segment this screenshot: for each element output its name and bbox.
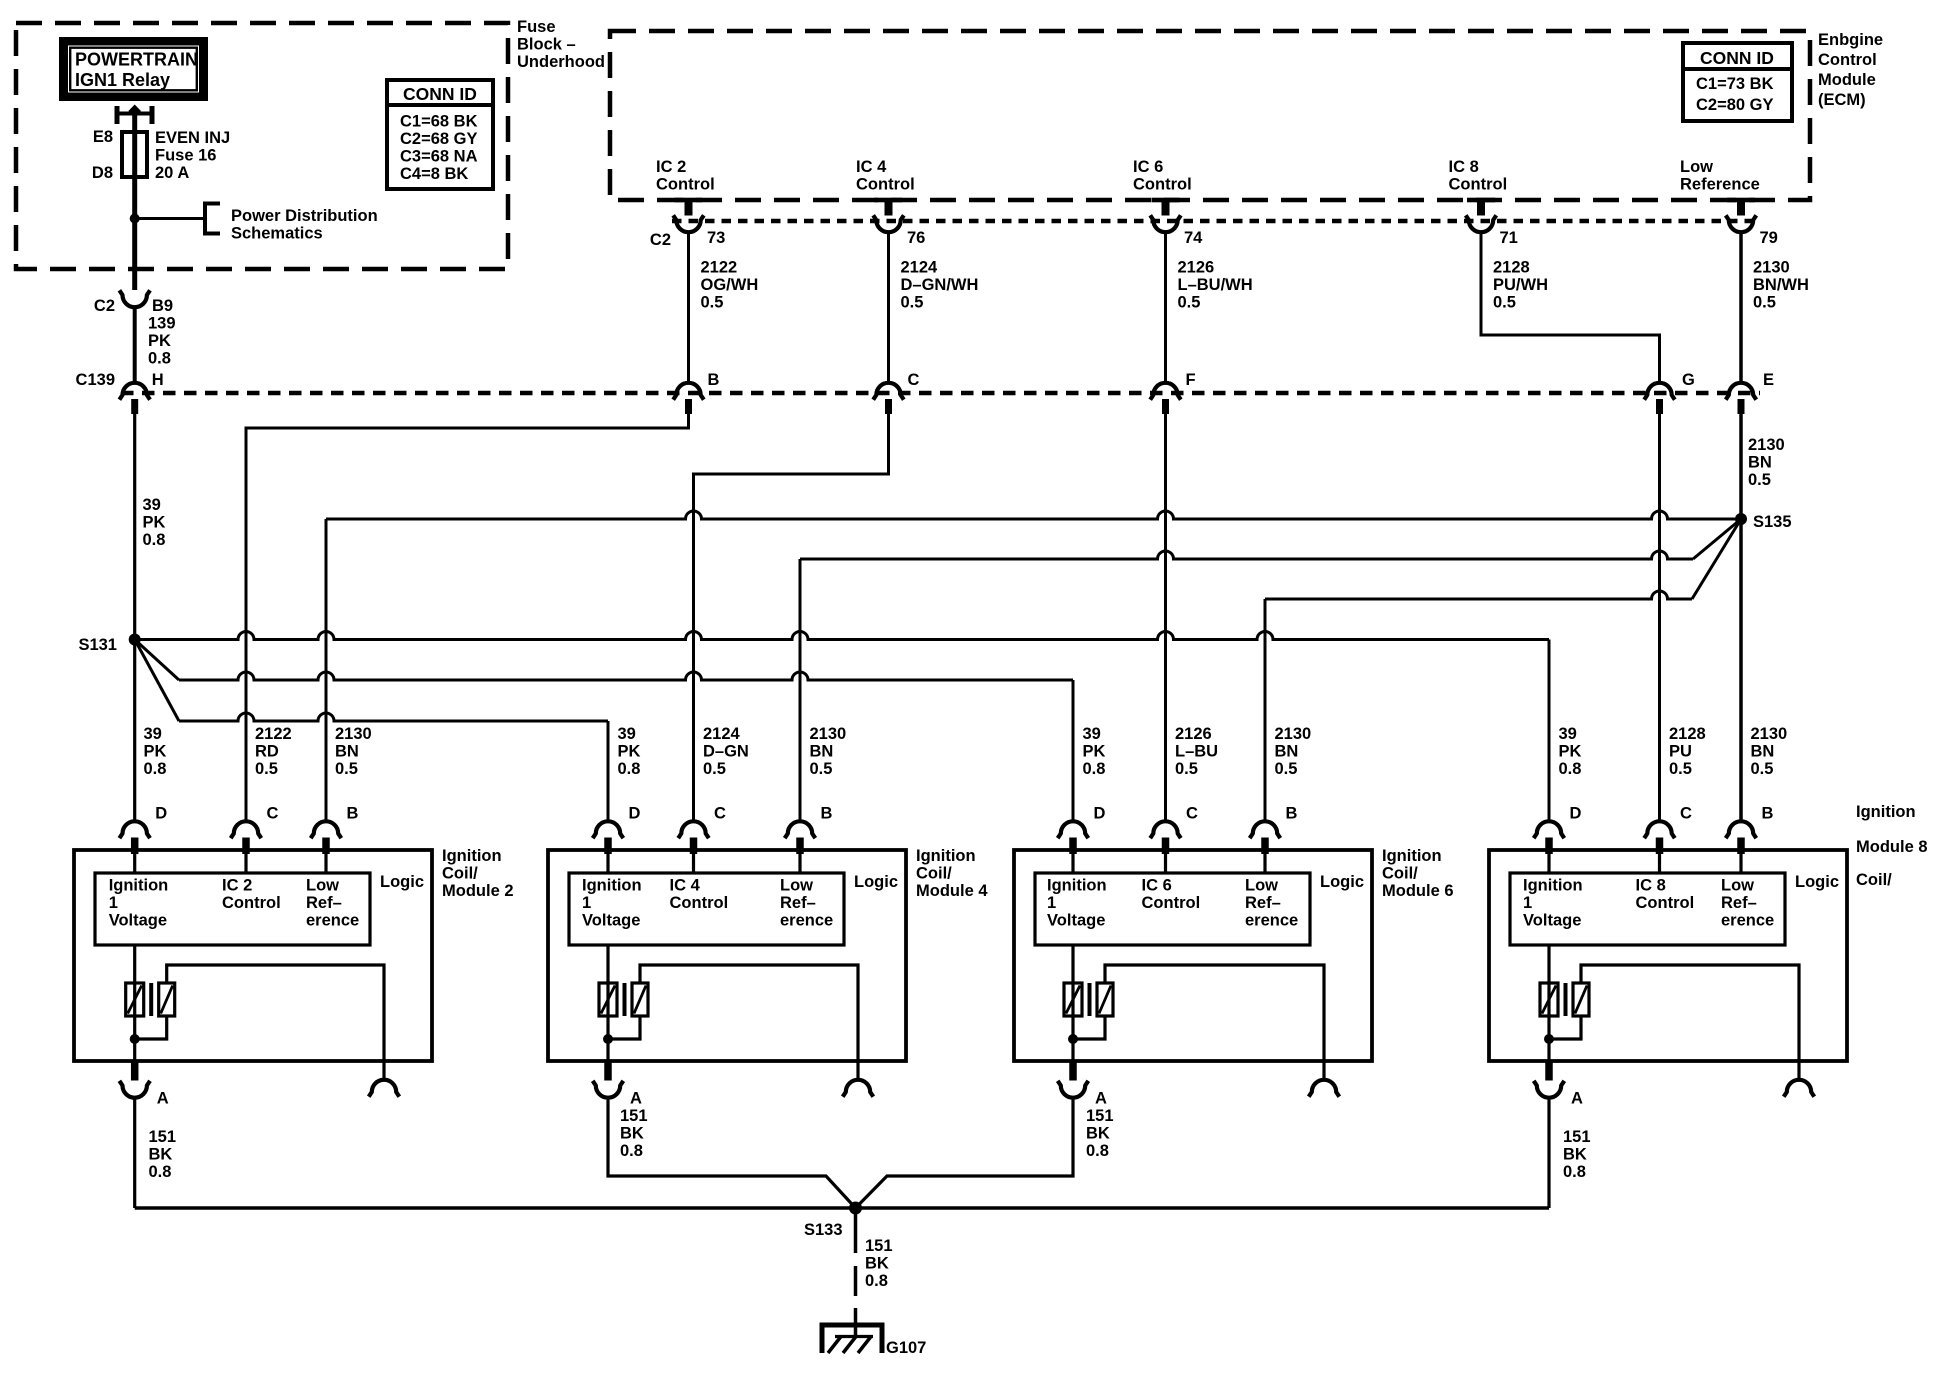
svg-text:B: B bbox=[1762, 805, 1774, 823]
label: wire 2130 BN/WH 0.5 bbox=[1753, 259, 1809, 312]
label: wire 151 BK 0.8 (module 8) bbox=[1563, 1128, 1591, 1181]
svg-text:Logic: Logic bbox=[380, 873, 424, 891]
label: wire A 151 BK 0.8 (module 2) bbox=[149, 1128, 177, 1181]
label: Logic (module 6) bbox=[1320, 873, 1364, 891]
svg-text:151: 151 bbox=[1563, 1128, 1591, 1146]
label: Ignition Coil/ Module 2 bbox=[442, 847, 514, 900]
svg-text:2126: 2126 bbox=[1178, 259, 1215, 277]
svg-text:2128: 2128 bbox=[1669, 725, 1706, 743]
label: Power Distribution Schematics bbox=[231, 207, 378, 243]
svg-text:Schematics: Schematics bbox=[231, 225, 323, 243]
coil primary winding (module 2) bbox=[126, 945, 144, 1061]
wire 151 BK: module 2 pin A to S133 bus bbox=[133, 1099, 136, 1209]
svg-text:E8: E8 bbox=[93, 128, 113, 146]
svg-text:Module 2: Module 2 bbox=[442, 882, 514, 900]
ground G107 symbol bbox=[822, 1325, 882, 1353]
svg-text:0.5: 0.5 bbox=[1275, 760, 1298, 778]
connector C139 dashed line bbox=[121, 391, 1760, 396]
label: pin letter A (module 4) bbox=[630, 1090, 642, 1108]
svg-text:IC 2: IC 2 bbox=[222, 877, 252, 895]
svg-text:PK: PK bbox=[144, 743, 167, 761]
svg-text:Low: Low bbox=[306, 877, 339, 895]
svg-text:Ref–: Ref– bbox=[780, 894, 816, 912]
svg-text:Logic: Logic bbox=[1320, 873, 1364, 891]
wire 151 BK ground bus bbox=[135, 1206, 1549, 1210]
svg-text:0.8: 0.8 bbox=[149, 1163, 172, 1181]
label: S131 bbox=[78, 636, 117, 654]
label: wire 2124 D–GN/WH 0.5 bbox=[901, 259, 979, 312]
svg-text:0.8: 0.8 bbox=[1083, 760, 1106, 778]
ECM pin 76 connector bbox=[873, 198, 904, 233]
bracket: power distribution reference bbox=[205, 204, 220, 234]
wire 2130 BN: coil 4 pin B to splice S135 bbox=[800, 519, 1741, 821]
svg-text:BN: BN bbox=[1751, 743, 1775, 761]
wire 2124 from ECM pin 76 to C139 C bbox=[887, 232, 890, 382]
svg-text:0.8: 0.8 bbox=[1559, 760, 1582, 778]
label: C139 pin letter C bbox=[908, 371, 920, 389]
svg-text:Low: Low bbox=[780, 877, 813, 895]
label: pin letter A (module 8) bbox=[1571, 1090, 1583, 1108]
label: Ignition Module 8 Coil/ bbox=[1856, 803, 1928, 889]
svg-text:2126: 2126 bbox=[1175, 725, 1212, 743]
label: wire 2128 PU/WH 0.5 bbox=[1493, 259, 1548, 312]
svg-text:Voltage: Voltage bbox=[1523, 912, 1581, 930]
svg-text:IC 8: IC 8 bbox=[1449, 158, 1479, 176]
svg-text:erence: erence bbox=[780, 912, 833, 930]
svg-text:EVEN INJ: EVEN INJ bbox=[155, 129, 230, 147]
svg-text:0.5: 0.5 bbox=[901, 294, 924, 312]
svg-text:Control: Control bbox=[670, 894, 729, 912]
label: wire 2128 PU 0.5 bbox=[1669, 725, 1706, 778]
svg-text:D8: D8 bbox=[92, 164, 113, 182]
svg-text:Voltage: Voltage bbox=[1047, 912, 1105, 930]
svg-text:Module: Module bbox=[1818, 71, 1876, 89]
svg-text:39: 39 bbox=[143, 496, 161, 514]
C139 pin G connector bbox=[1644, 383, 1675, 414]
wire 39 PK: S131 down to coil 2 pin D bbox=[133, 640, 136, 821]
splice S133 bbox=[849, 1202, 862, 1215]
svg-text:2130: 2130 bbox=[1748, 436, 1785, 454]
ECM connector C2 dotted line bbox=[672, 219, 1757, 224]
svg-text:S131: S131 bbox=[78, 636, 117, 654]
wire 151 BK: module 4 pin A to S133 bbox=[608, 1099, 856, 1209]
svg-text:POWERTRAIN: POWERTRAIN bbox=[75, 50, 198, 70]
wire 2130 BN: coil 6 pin B to splice S135 bbox=[1265, 519, 1741, 821]
svg-text:1: 1 bbox=[1523, 894, 1532, 912]
ignition coil/module 4 logic box bbox=[569, 873, 844, 945]
ignition coil/module 4 outer box bbox=[548, 850, 906, 1061]
label: pin number 71 bbox=[1500, 229, 1518, 247]
svg-text:B9: B9 bbox=[152, 297, 173, 315]
C139 pin C connector bbox=[873, 383, 904, 414]
svg-text:0.8: 0.8 bbox=[148, 350, 171, 368]
svg-text:S135: S135 bbox=[1753, 513, 1792, 531]
label: wire 39 PK 0.8 bbox=[1559, 725, 1582, 778]
label: G107 bbox=[886, 1339, 926, 1357]
label: C139 pin letter F bbox=[1186, 371, 1196, 389]
wire 151 BK: module 6 pin A to S133 bbox=[856, 1099, 1074, 1209]
svg-text:G: G bbox=[1682, 371, 1695, 389]
svg-text:Fuse 16: Fuse 16 bbox=[155, 147, 216, 165]
svg-text:Power Distribution: Power Distribution bbox=[231, 207, 378, 225]
fuse block underhood dashed box bbox=[16, 23, 508, 269]
ignition coil/module 2 logic box bbox=[95, 873, 370, 945]
svg-text:IC 4: IC 4 bbox=[670, 877, 701, 895]
svg-text:C: C bbox=[267, 805, 279, 823]
svg-text:0.5: 0.5 bbox=[703, 760, 726, 778]
svg-text:2130: 2130 bbox=[1753, 259, 1790, 277]
coil core (module 6) bbox=[1088, 983, 1092, 1016]
svg-text:C: C bbox=[908, 371, 920, 389]
svg-text:L–BU: L–BU bbox=[1175, 743, 1218, 761]
label: pin letter A (module 6) bbox=[1095, 1090, 1107, 1108]
label: wire 2124 D–GN 0.5 bbox=[703, 725, 749, 778]
ignition coil/module 8 outer box bbox=[1489, 850, 1847, 1061]
svg-text:Control: Control bbox=[856, 176, 915, 194]
label: wire 2130 BN 0.5 bbox=[335, 725, 372, 778]
svg-text:Logic: Logic bbox=[854, 873, 898, 891]
wire 139 PK 0.8 from C2 to C139 pin H bbox=[133, 307, 137, 383]
svg-text:0.5: 0.5 bbox=[701, 294, 724, 312]
label: Logic (module 8) bbox=[1795, 873, 1839, 891]
svg-text:RD: RD bbox=[255, 743, 279, 761]
label: Logic (module 4) bbox=[854, 873, 898, 891]
C139 pin E connector bbox=[1726, 383, 1757, 414]
ECM pin 71 connector bbox=[1466, 198, 1497, 232]
svg-text:D–GN/WH: D–GN/WH bbox=[901, 276, 979, 294]
C139 pin B connector bbox=[673, 383, 704, 414]
ECM pin 73 connector bbox=[673, 198, 704, 233]
svg-text:BN: BN bbox=[1748, 454, 1772, 472]
svg-text:151: 151 bbox=[149, 1128, 177, 1146]
svg-text:0.5: 0.5 bbox=[1751, 760, 1774, 778]
fuse block CONN ID table bbox=[387, 80, 493, 189]
svg-text:BK: BK bbox=[865, 1255, 889, 1273]
wire from C139 B jog to ignition coil 2 pin C bbox=[246, 414, 689, 821]
svg-text:2124: 2124 bbox=[703, 725, 741, 743]
module 2 pin A connector bbox=[119, 1061, 150, 1098]
svg-text:PK: PK bbox=[618, 743, 641, 761]
svg-text:73: 73 bbox=[707, 229, 725, 247]
ignition coil/module 2 outer box bbox=[74, 850, 432, 1061]
ignition coil/module 6 pins D C B connectors bbox=[1058, 805, 1298, 874]
label: Fuse Block Underhood bbox=[517, 18, 605, 71]
svg-text:Ignition: Ignition bbox=[1047, 877, 1107, 895]
wire 2126 from ECM pin 74 to C139 F bbox=[1164, 232, 1167, 382]
label: wire 2130 BN 0.5 bbox=[1751, 725, 1788, 778]
svg-text:B: B bbox=[347, 805, 359, 823]
ECM dashed box bbox=[610, 31, 1810, 200]
svg-text:2124: 2124 bbox=[901, 259, 939, 277]
label: pin number 73 bbox=[707, 229, 725, 247]
svg-text:(ECM): (ECM) bbox=[1818, 91, 1866, 109]
label: pin number 74 bbox=[1184, 229, 1203, 247]
svg-text:39: 39 bbox=[618, 725, 636, 743]
svg-text:151: 151 bbox=[865, 1237, 893, 1255]
node: coil common junction (module 6) bbox=[1068, 1034, 1078, 1044]
connector C2 inline (cup) bbox=[119, 290, 150, 307]
svg-text:2128: 2128 bbox=[1493, 259, 1530, 277]
svg-text:PU/WH: PU/WH bbox=[1493, 276, 1548, 294]
svg-text:Ignition: Ignition bbox=[109, 877, 169, 895]
svg-text:A: A bbox=[630, 1090, 642, 1108]
svg-text:OG/WH: OG/WH bbox=[701, 276, 759, 294]
relay bottom pin terminal symbol bbox=[117, 105, 152, 125]
svg-text:Low: Low bbox=[1245, 877, 1278, 895]
svg-text:D: D bbox=[1094, 805, 1106, 823]
svg-text:IC 2: IC 2 bbox=[656, 158, 686, 176]
label: pin letter A (module 2) bbox=[157, 1090, 169, 1108]
svg-text:BN/WH: BN/WH bbox=[1753, 276, 1809, 294]
coil primary winding (module 6) bbox=[1064, 945, 1082, 1061]
label: wire 39 PK 0.8 bbox=[1083, 725, 1106, 778]
svg-text:PK: PK bbox=[143, 514, 166, 532]
svg-text:1: 1 bbox=[1047, 894, 1056, 912]
coil secondary winding (module 2) bbox=[135, 965, 384, 1061]
label: wire 2130 BN 0.5 (above S135) bbox=[1748, 436, 1785, 489]
svg-text:139: 139 bbox=[148, 315, 176, 333]
svg-text:0.5: 0.5 bbox=[1493, 294, 1516, 312]
svg-text:F: F bbox=[1186, 371, 1196, 389]
label: C139 pin letter G bbox=[1682, 371, 1695, 389]
label: wire 2130 BN 0.5 bbox=[1275, 725, 1312, 778]
svg-text:Ref–: Ref– bbox=[1721, 894, 1757, 912]
svg-text:BK: BK bbox=[149, 1146, 173, 1164]
svg-text:E: E bbox=[1763, 371, 1774, 389]
coil primary winding (module 8) bbox=[1540, 945, 1558, 1061]
wire from C139 F down to ignition coil 6 pin C bbox=[1164, 414, 1167, 821]
wire: fuse output down to connector C2 bbox=[132, 219, 137, 291]
svg-text:PK: PK bbox=[1083, 743, 1106, 761]
svg-text:2130: 2130 bbox=[810, 725, 847, 743]
svg-text:Control: Control bbox=[222, 894, 281, 912]
svg-text:0.5: 0.5 bbox=[1175, 760, 1198, 778]
svg-text:C2=68 GY: C2=68 GY bbox=[400, 130, 478, 148]
svg-text:Module 6: Module 6 bbox=[1382, 882, 1454, 900]
label: C139 bbox=[76, 371, 115, 389]
svg-text:Underhood: Underhood bbox=[517, 53, 605, 71]
label: wire 2126 L–BU 0.5 bbox=[1175, 725, 1218, 778]
svg-text:PU: PU bbox=[1669, 743, 1692, 761]
svg-text:74: 74 bbox=[1184, 229, 1203, 247]
svg-text:2130: 2130 bbox=[1751, 725, 1788, 743]
label: pin number 76 bbox=[907, 229, 925, 247]
svg-text:0.8: 0.8 bbox=[1086, 1142, 1109, 1160]
label: wire 2130 BN 0.5 bbox=[810, 725, 847, 778]
svg-text:CONN ID: CONN ID bbox=[403, 84, 477, 104]
svg-text:B: B bbox=[821, 805, 833, 823]
svg-text:A: A bbox=[1095, 1090, 1107, 1108]
svg-text:Coil/: Coil/ bbox=[442, 865, 478, 883]
svg-text:2122: 2122 bbox=[255, 725, 292, 743]
svg-text:Coil/: Coil/ bbox=[1856, 871, 1892, 889]
wire 2130 BN: S135 down to coil 8 pin B bbox=[1739, 519, 1743, 821]
svg-text:0.8: 0.8 bbox=[144, 760, 167, 778]
svg-text:Enbgine: Enbgine bbox=[1818, 31, 1883, 49]
C139 pin H connector bbox=[119, 383, 150, 414]
svg-text:A: A bbox=[1571, 1090, 1583, 1108]
ECM pin 79 connector bbox=[1726, 198, 1757, 232]
wire 39 PK 0.8 from C139 H down to S131 bbox=[133, 414, 136, 640]
coil primary winding (module 4) bbox=[599, 945, 617, 1061]
svg-text:IC 6: IC 6 bbox=[1133, 158, 1163, 176]
wire 39 PK: S131 rail to coil 8 pin D bbox=[135, 632, 1549, 821]
label: wire 2122 RD 0.5 bbox=[255, 725, 292, 778]
svg-text:Ignition: Ignition bbox=[442, 847, 502, 865]
svg-text:151: 151 bbox=[620, 1107, 648, 1125]
svg-text:Coil/: Coil/ bbox=[916, 865, 952, 883]
svg-text:C2: C2 bbox=[94, 297, 115, 315]
ECM pin 74 connector bbox=[1150, 198, 1181, 232]
wire 151 BK 0.8 from S133 to ground (broken) bbox=[854, 1208, 858, 1336]
label: wire 39 PK 0.8 (upper left) bbox=[143, 496, 166, 549]
svg-text:C139: C139 bbox=[76, 371, 115, 389]
svg-text:BN: BN bbox=[1275, 743, 1299, 761]
splice S131 bbox=[129, 634, 141, 646]
svg-text:D: D bbox=[155, 805, 167, 823]
label: wire 2122 OG/WH 0.5 bbox=[701, 259, 759, 312]
svg-text:IC 4: IC 4 bbox=[856, 158, 887, 176]
label: wire 39 PK 0.8 bbox=[618, 725, 641, 778]
svg-text:BK: BK bbox=[620, 1125, 644, 1143]
svg-text:Control: Control bbox=[1818, 51, 1877, 69]
svg-text:C3=68 NA: C3=68 NA bbox=[400, 148, 478, 166]
svg-text:0.8: 0.8 bbox=[1563, 1163, 1586, 1181]
svg-text:L–BU/WH: L–BU/WH bbox=[1178, 276, 1253, 294]
svg-text:2130: 2130 bbox=[1275, 725, 1312, 743]
svg-text:BK: BK bbox=[1086, 1125, 1110, 1143]
node: coil common junction (module 8) bbox=[1544, 1034, 1554, 1044]
svg-text:79: 79 bbox=[1760, 229, 1778, 247]
svg-text:Voltage: Voltage bbox=[582, 912, 640, 930]
svg-text:Voltage: Voltage bbox=[109, 912, 167, 930]
svg-text:Low: Low bbox=[1680, 158, 1713, 176]
svg-text:2130: 2130 bbox=[335, 725, 372, 743]
svg-text:Block –: Block – bbox=[517, 36, 576, 54]
svg-text:D: D bbox=[629, 805, 641, 823]
ignition coil/module 4 pins D C B connectors bbox=[593, 805, 833, 874]
label: wire A 151 BK 0.8 (module 6) bbox=[1086, 1107, 1114, 1160]
svg-text:C: C bbox=[714, 805, 726, 823]
module 4 low reference output connector (unterminated) bbox=[843, 1061, 874, 1097]
svg-text:Control: Control bbox=[1636, 894, 1695, 912]
svg-text:0.8: 0.8 bbox=[618, 760, 641, 778]
label: C2 B9 and wire 139 PK 0.8 bbox=[94, 297, 176, 368]
label: Ignition Coil/ Module 4 bbox=[916, 847, 988, 900]
svg-text:0.5: 0.5 bbox=[1753, 294, 1776, 312]
svg-text:Ignition: Ignition bbox=[916, 847, 976, 865]
svg-text:Coil/: Coil/ bbox=[1382, 865, 1418, 883]
svg-text:C: C bbox=[1186, 805, 1198, 823]
module 4 pin A connector bbox=[593, 1061, 624, 1098]
ECM CONN ID table bbox=[1683, 43, 1792, 121]
label: C139 pin letter H bbox=[152, 371, 164, 389]
svg-text:Low: Low bbox=[1721, 877, 1754, 895]
svg-text:39: 39 bbox=[144, 725, 162, 743]
svg-text:151: 151 bbox=[1086, 1107, 1114, 1125]
label: fuse terminals E8 D8 bbox=[92, 128, 113, 182]
label: wire 2126 L–BU/WH 0.5 bbox=[1178, 259, 1253, 312]
svg-text:Ignition: Ignition bbox=[1382, 847, 1442, 865]
svg-text:IC 8: IC 8 bbox=[1636, 877, 1666, 895]
svg-text:BN: BN bbox=[810, 743, 834, 761]
wire 2130 from ECM pin 79 to C139 E bbox=[1739, 232, 1743, 382]
svg-text:C1=73 BK: C1=73 BK bbox=[1696, 75, 1774, 93]
label: wire A 151 BK 0.8 (module 4) bbox=[620, 1107, 648, 1160]
svg-text:Control: Control bbox=[1142, 894, 1201, 912]
svg-text:Logic: Logic bbox=[1795, 873, 1839, 891]
svg-text:Ref–: Ref– bbox=[1245, 894, 1281, 912]
label: S135 bbox=[1753, 513, 1792, 531]
svg-text:BK: BK bbox=[1563, 1146, 1587, 1164]
wire from C139 C jog to ignition coil 4 pin C bbox=[694, 414, 889, 821]
svg-text:Ignition: Ignition bbox=[582, 877, 642, 895]
svg-text:C1=68 BK: C1=68 BK bbox=[400, 113, 478, 131]
ECM internal pin function labels bbox=[656, 158, 1760, 194]
svg-text:CONN ID: CONN ID bbox=[1700, 48, 1774, 68]
svg-text:S133: S133 bbox=[804, 1221, 843, 1239]
svg-text:G107: G107 bbox=[886, 1339, 926, 1357]
wire 39 PK: S131 rail to coil 6 pin D bbox=[135, 640, 1073, 821]
label: C139 pin letter E bbox=[1763, 371, 1774, 389]
label: C139 pin letter B bbox=[708, 371, 720, 389]
svg-text:PK: PK bbox=[148, 332, 171, 350]
svg-text:0.5: 0.5 bbox=[1178, 294, 1201, 312]
label: wire 151 BK 0.8 (to ground) bbox=[865, 1237, 893, 1290]
svg-text:0.8: 0.8 bbox=[865, 1272, 888, 1290]
svg-text:1: 1 bbox=[582, 894, 591, 912]
svg-text:PK: PK bbox=[1559, 743, 1582, 761]
svg-text:0.5: 0.5 bbox=[810, 760, 833, 778]
label: connector C2 of ECM bbox=[650, 231, 671, 249]
svg-text:Ref–: Ref– bbox=[306, 894, 342, 912]
svg-text:IGN1 Relay: IGN1 Relay bbox=[75, 70, 170, 90]
svg-text:0.8: 0.8 bbox=[620, 1142, 643, 1160]
svg-text:Module 4: Module 4 bbox=[916, 882, 988, 900]
wire 39 PK: S131 rail to coil 4 pin D bbox=[135, 640, 608, 821]
svg-text:1: 1 bbox=[109, 894, 118, 912]
svg-text:Ignition: Ignition bbox=[1856, 803, 1916, 821]
coil core (module 2) bbox=[149, 983, 153, 1016]
module 8 pin A connector bbox=[1534, 1061, 1565, 1098]
wire 2130 BN 0.5 from C139 E down to S135 bbox=[1739, 414, 1743, 519]
svg-text:Ignition: Ignition bbox=[1523, 877, 1583, 895]
svg-text:C4=8 BK: C4=8 BK bbox=[400, 165, 468, 183]
svg-text:Module 8: Module 8 bbox=[1856, 838, 1928, 856]
node: coil common junction (module 4) bbox=[603, 1034, 613, 1044]
svg-text:erence: erence bbox=[1245, 912, 1298, 930]
svg-text:Control: Control bbox=[1449, 176, 1508, 194]
svg-text:IC 6: IC 6 bbox=[1142, 877, 1172, 895]
svg-text:A: A bbox=[157, 1090, 169, 1108]
relay K: POWERTRAIN IGN1 Relay box bbox=[59, 37, 208, 101]
wire 2122 from ECM pin 73 to C139 B bbox=[687, 232, 690, 382]
svg-text:B: B bbox=[1286, 805, 1298, 823]
svg-text:71: 71 bbox=[1500, 229, 1518, 247]
svg-text:39: 39 bbox=[1083, 725, 1101, 743]
module 8 low reference output connector (unterminated) bbox=[1784, 1061, 1815, 1097]
C139 pin F connector bbox=[1150, 383, 1181, 414]
svg-text:Fuse: Fuse bbox=[517, 18, 556, 36]
label: wire 39 PK 0.8 bbox=[144, 725, 167, 778]
svg-text:C2: C2 bbox=[650, 231, 671, 249]
svg-text:C2=80 GY: C2=80 GY bbox=[1696, 96, 1774, 114]
ignition coil/module 6 logic box bbox=[1035, 873, 1310, 945]
ignition coil/module 8 logic box bbox=[1510, 873, 1785, 945]
svg-text:Control: Control bbox=[656, 176, 715, 194]
svg-text:Reference: Reference bbox=[1680, 176, 1760, 194]
wire from C139 G down to ignition coil 8 pin C bbox=[1658, 414, 1661, 821]
